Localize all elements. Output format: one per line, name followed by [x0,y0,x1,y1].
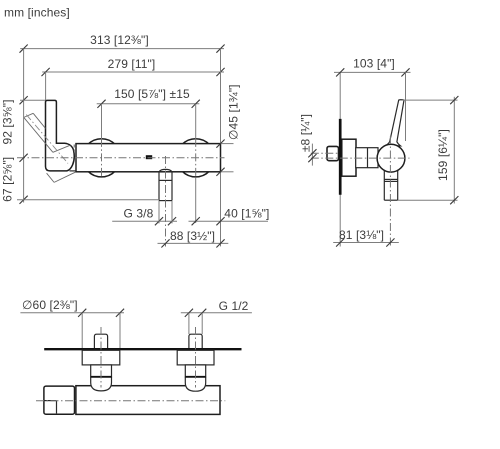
stem [356,148,378,168]
extension line 150 left [101,104,103,139]
side horizontal centerline [311,157,410,159]
extension right escutcheon center [195,177,197,223]
extension handle top [20,99,46,101]
connector bottom thick left [91,376,112,378]
inlet centerline right plan [195,327,197,388]
inlet nipple left [94,334,107,349]
body bar [76,144,221,172]
label diameter 45 [227,84,241,140]
extension pipe bottom [17,199,159,201]
connector left [91,365,112,377]
cap bottom corner piece [70,170,76,172]
hidden line at valve joint [73,145,75,152]
dimension G 1/2 [181,299,252,334]
supply nub [327,146,339,160]
svg-text:∅45 [1¾"]: ∅45 [1¾"] [227,84,241,140]
svg-text:279 [11"]: 279 [11"] [108,57,156,71]
connector right [185,365,205,377]
inlet nipple right [189,334,202,349]
dome right [185,377,205,391]
outlet boss arc [159,169,172,171]
outlet pipe front [159,172,172,201]
escutcheon circle left [82,139,120,177]
svg-text:±8 [¼"]: ±8 [¼"] [299,114,313,152]
escutcheon plan right [177,350,214,365]
escutcheon side [342,139,356,176]
handle block plan [44,386,75,414]
marker dot on body [146,155,152,159]
block notch [44,401,57,414]
escutcheon circle right [177,139,215,177]
extension circle right [405,72,407,141]
outlet pipe side [384,165,397,200]
handle swung axis centerline [26,115,68,164]
body plan [76,386,220,415]
left vertical dimension line 92/67 [20,49,28,204]
bar horizontal centerline [17,157,225,159]
outlet pipe centerline [165,156,167,247]
handle swung position outline [24,113,76,182]
svg-text:67 [2⅝"]: 67 [2⅝"] [1,157,15,202]
label 92 [1,99,15,144]
wall plate [339,119,342,195]
title mm [inches] [4,6,70,20]
inlet centerline left plan [100,327,102,388]
svg-text:G 1/2: G 1/2 [219,299,249,313]
inlet centerline left [101,139,103,177]
G 3/8 label [112,207,177,226]
svg-text:150 [5⅞"] ±15: 150 [5⅞"] ±15 [114,87,190,101]
dimension 103 [334,57,411,77]
wall axis line [339,72,341,246]
svg-text:40 [1⅝"]: 40 [1⅝"] [224,206,269,220]
handle lever and valve cap [1,33,459,415]
valve body circle [377,144,405,172]
svg-text:92 [3⅝"]: 92 [3⅝"] [1,99,15,144]
svg-text:103 [4"]: 103 [4"] [353,57,395,71]
dimension 81 [333,228,399,247]
svg-text:88 [3½"]: 88 [3½"] [170,229,215,243]
escutcheon plan left [82,350,120,365]
dimension 40 [189,206,270,225]
dome left [91,377,112,391]
dimension 313 [20,33,225,53]
svg-text:∅60 [2⅜"]: ∅60 [2⅜"] [22,298,78,312]
svg-text:81 [3⅛"]: 81 [3⅛"] [339,228,384,242]
lever side [385,100,404,146]
dimension diameter 60 [20,298,124,349]
dimension 159 [398,96,458,204]
inlet centerline right [195,139,197,177]
svg-text:G 3/8: G 3/8 [124,207,154,221]
dimension 88 [158,229,229,247]
wall line [44,348,241,350]
connector bottom thick right [185,376,205,378]
dimension 150 +-15 [97,87,200,108]
extension line 150 right [195,104,197,139]
label 67 [1,157,15,202]
extension bar bottom right [222,171,234,173]
extension bar top right [222,143,234,145]
side vertical centerline [389,136,391,246]
dimension +-8 [299,114,339,166]
body plan centerline [36,400,225,402]
pipe left edge extension [158,201,160,223]
extension line 279 left [45,72,47,100]
svg-text:159 [6¼"]: 159 [6¼"] [436,129,450,181]
dimension 279 [42,57,225,76]
pipe right edge extension [171,201,173,223]
svg-text:mm [inches]: mm [inches] [4,6,70,20]
right vertical dimension line [216,49,224,247]
svg-text:313 [12⅜"]: 313 [12⅜"] [90,33,149,47]
